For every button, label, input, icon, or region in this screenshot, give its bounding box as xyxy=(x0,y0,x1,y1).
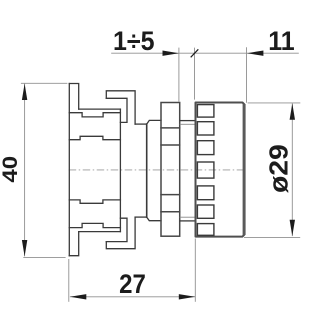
collar inner line 1 xyxy=(161,127,180,129)
40 extension top xyxy=(21,82,68,84)
top dimension line xyxy=(111,52,299,54)
shaft bottom lines xyxy=(180,220,195,222)
27 arrow left xyxy=(70,294,86,299)
ø29 extension bottom xyxy=(244,237,300,239)
adapter top tab xyxy=(69,84,78,110)
svg-text:1÷5: 1÷5 xyxy=(113,27,155,56)
bezel rib 7 xyxy=(197,224,214,236)
extension line bezel front xyxy=(246,47,248,103)
adapter bottom face xyxy=(79,231,121,233)
stem outline xyxy=(147,120,161,124)
collar inner line 4 xyxy=(161,211,180,213)
40 arrow down xyxy=(22,240,27,256)
40 dimension line xyxy=(24,84,26,257)
40 extension bottom xyxy=(23,256,65,258)
adapter right edge xyxy=(119,109,121,232)
bezel rib 2 xyxy=(197,122,214,135)
stem shoulder top xyxy=(135,123,147,125)
extension line bezel back xyxy=(194,48,196,100)
bezel rib 1 xyxy=(197,105,214,118)
collar ring xyxy=(161,103,180,237)
svg-text:27: 27 xyxy=(119,270,146,299)
bezel rib 5 xyxy=(197,186,214,200)
extension line collar right xyxy=(178,48,180,102)
adapter bottom tab xyxy=(69,232,78,256)
27 dimension line xyxy=(70,296,195,298)
stem shoulder bottom xyxy=(135,216,147,218)
tick slash xyxy=(191,49,199,57)
collar inner line 2 xyxy=(161,144,180,146)
bezel rib 4 xyxy=(197,162,214,178)
centerline xyxy=(69,169,246,171)
shaft top lines xyxy=(180,120,195,122)
adapter body outline xyxy=(69,84,161,256)
svg-text:40: 40 xyxy=(0,156,22,183)
bezel right edge thick xyxy=(243,104,246,235)
bottom snap hook flag xyxy=(106,217,135,249)
ø29 extension top xyxy=(248,102,301,104)
27 extension left xyxy=(68,259,70,302)
bezel rib 6 xyxy=(197,205,214,218)
svg-text:11: 11 xyxy=(268,27,294,56)
27 extension right xyxy=(194,239,196,302)
bezel rib 3 xyxy=(197,141,214,155)
adapter top notch line xyxy=(69,113,120,117)
svg-text:ø29: ø29 xyxy=(263,144,293,193)
adapter top plateau line xyxy=(69,136,120,139)
ø29 arrow down xyxy=(290,220,295,236)
adapter top face xyxy=(79,108,121,110)
adapter bottom plateau line xyxy=(69,200,120,203)
arrow 11 xyxy=(247,51,263,56)
collar inner line 3 xyxy=(161,194,180,196)
adapter bottom notch line xyxy=(69,223,120,227)
arrow 1÷5 xyxy=(163,51,179,56)
bezel head outline xyxy=(196,103,245,237)
ø29 arrow up xyxy=(290,103,295,119)
27 arrow right xyxy=(179,294,195,299)
ø29 dimension line xyxy=(291,103,293,236)
40 arrow up xyxy=(22,84,27,100)
top snap hook flag xyxy=(106,91,135,124)
